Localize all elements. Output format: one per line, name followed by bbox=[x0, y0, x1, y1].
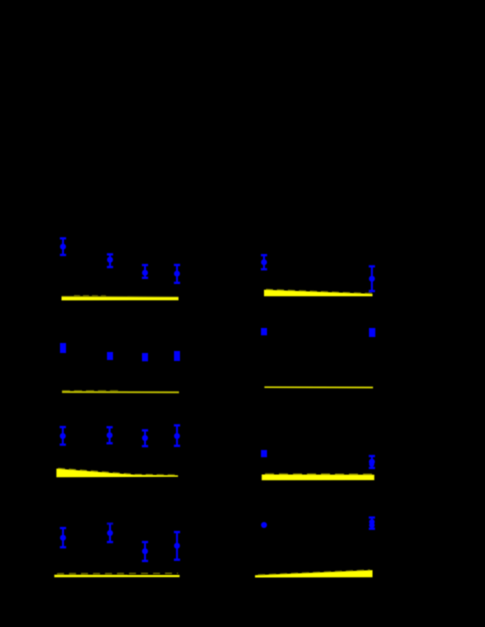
P3 point 3 bbox=[142, 353, 148, 361]
P7 point 2 bbox=[107, 523, 113, 544]
P5 point 2 bbox=[107, 426, 113, 444]
P7 point 3 bbox=[142, 541, 148, 562]
P4 yellow line bbox=[264, 386, 373, 388]
P3 point 2 bbox=[107, 352, 113, 360]
P4 point 1 bbox=[261, 328, 267, 335]
P1 point 3 bbox=[142, 264, 148, 279]
P6 yellow band bbox=[262, 475, 375, 481]
P8 point 2 bbox=[369, 516, 375, 529]
P6 point 2 bbox=[369, 455, 375, 469]
P4 point 2 bbox=[369, 328, 375, 337]
P3 point 4 bbox=[174, 351, 180, 361]
panel 8 (row4-right): dot marker bbox=[261, 522, 267, 528]
P3 yellow line bbox=[62, 391, 179, 393]
P8 yellow wedge band bbox=[255, 570, 373, 577]
P1 point 2 bbox=[107, 253, 113, 268]
P5 point 4 bbox=[174, 424, 180, 447]
P1 point 1 bbox=[60, 237, 66, 256]
P2 point 1 bbox=[261, 254, 267, 270]
P5 point 3 bbox=[142, 429, 148, 447]
P2 point 2 bbox=[369, 265, 375, 292]
P1 yellow band bbox=[62, 297, 179, 301]
P7 point 4 bbox=[174, 531, 180, 561]
P1 point 4 bbox=[174, 264, 180, 284]
P3 point 1 bbox=[60, 343, 66, 353]
P7 point 1 bbox=[60, 527, 66, 548]
P2 yellow wedge band bbox=[264, 290, 373, 297]
P5 point 1 bbox=[60, 426, 66, 446]
P6 point 1 bbox=[261, 450, 267, 457]
P7 yellow band bbox=[54, 575, 179, 578]
P5 yellow wedge band bbox=[56, 469, 178, 478]
